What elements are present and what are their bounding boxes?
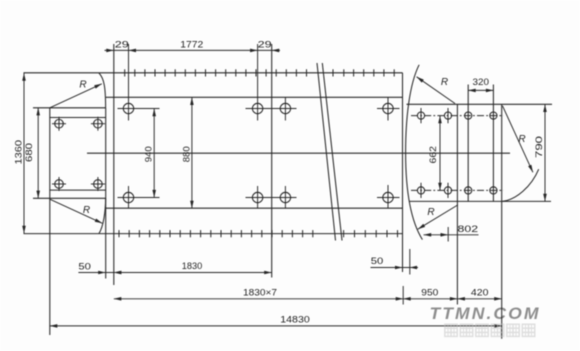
- svg-text:940: 940: [144, 146, 154, 162]
- right section hole E2: [444, 187, 451, 194]
- radius leader R1 left cap top: [50, 80, 102, 108]
- left cap hole C4: [94, 180, 103, 189]
- radius leader R5 far right: [503, 106, 533, 173]
- right section hole D1: [417, 112, 424, 119]
- lower inner line: [106, 207, 403, 209]
- hole centermarks: [52, 44, 448, 208]
- svg-text:50: 50: [371, 256, 384, 266]
- svg-text:29: 29: [258, 40, 272, 50]
- hole B3: [280, 192, 290, 202]
- svg-text:1830×7: 1830×7: [243, 287, 277, 297]
- left cap hole crosses: [52, 123, 66, 125]
- svg-text:1360: 1360: [14, 140, 24, 165]
- vertical centermarks top row: [128, 44, 130, 121]
- right end large radius arc: [406, 65, 423, 240]
- panel joint line: [271, 44, 273, 278]
- svg-text:R: R: [79, 80, 86, 91]
- right section hole D3: [465, 112, 472, 119]
- break line 2: [322, 63, 342, 241]
- svg-text:1772: 1772: [180, 40, 203, 50]
- svg-text:880: 880: [181, 146, 191, 162]
- dim 1360: [14, 73, 26, 233]
- svg-text:R: R: [518, 134, 525, 145]
- left cap hole C3: [55, 180, 64, 189]
- right section joint line c: [492, 85, 494, 202]
- svg-text:14830: 14830: [280, 315, 310, 325]
- svg-text:320: 320: [473, 77, 490, 87]
- watermark: [430, 304, 541, 336]
- dim 790: [534, 104, 547, 201]
- svg-text:662: 662: [428, 146, 438, 164]
- holes: [55, 103, 497, 202]
- radius leader R4 right end bottom: [418, 205, 458, 229]
- left cap hole C1: [55, 119, 64, 128]
- dim 14830: [50, 315, 502, 328]
- hole A4: [383, 103, 393, 113]
- right section hole D2: [444, 112, 451, 119]
- right section joint line b: [467, 85, 469, 202]
- right section hole D4: [490, 112, 497, 119]
- dim 1830x7: [114, 287, 502, 300]
- radius leader R2 left cap bottom: [50, 199, 103, 223]
- radius leader R3 right end top: [417, 77, 455, 104]
- plate left edge: [113, 44, 115, 285]
- right section hole E1: [417, 187, 424, 194]
- left end cap box: [33, 108, 106, 335]
- right section joint line a: [456, 104, 458, 304]
- svg-text:790: 790: [534, 136, 544, 158]
- svg-text:1830: 1830: [182, 261, 203, 271]
- dim 420: [457, 287, 501, 300]
- left cap hole C2: [94, 119, 103, 128]
- upper inner line: [106, 96, 403, 98]
- dim 50 right: [371, 256, 419, 269]
- weld ticks top edge: [125, 69, 395, 76]
- svg-text:802: 802: [458, 224, 479, 234]
- svg-text:420: 420: [471, 287, 489, 297]
- svg-text:R: R: [427, 207, 434, 218]
- right section hole centerline top (dash-dot): [411, 115, 504, 117]
- hole A2: [252, 103, 262, 113]
- centerline holes A1/B1: [118, 108, 160, 110]
- dim 320: [468, 77, 493, 92]
- svg-text:29: 29: [115, 40, 129, 50]
- vertical centermarks bottom row: [128, 186, 130, 208]
- dim 680: [24, 108, 40, 199]
- dim 950: [403, 287, 457, 300]
- dim 1772: [180, 40, 257, 53]
- plate bottom edge: [24, 233, 403, 235]
- dim 29 right: [258, 40, 280, 53]
- dim 1830: [114, 261, 272, 275]
- centerline holes A2/A3: [246, 108, 297, 110]
- dim 880: [181, 97, 193, 208]
- right section hole E3: [465, 187, 472, 194]
- svg-text:TTMN.COM: TTMN.COM: [430, 304, 541, 323]
- right end edge: [501, 104, 503, 338]
- dim 50 left: [78, 262, 271, 275]
- weld ticks bottom edge: [119, 230, 398, 237]
- hole B1 main plate bottom row: [123, 192, 133, 202]
- horizontal centerline: [87, 152, 510, 154]
- dim 802: [424, 224, 479, 242]
- hole B2: [252, 192, 262, 202]
- right section hole centerline bottom (dash-dot): [411, 189, 504, 191]
- ext line 1830x7/950 boundary: [402, 286, 404, 305]
- plate right edge: [402, 73, 404, 272]
- left cap bottom-right fillet arc: [99, 198, 106, 233]
- hole A3: [280, 103, 290, 113]
- svg-text:50: 50: [78, 262, 91, 272]
- left cap top-right fillet arc: [99, 73, 106, 108]
- svg-text:R: R: [441, 77, 448, 88]
- ext line right 50: [409, 249, 411, 275]
- right section top edge: [407, 103, 553, 105]
- right section hole vertical marks: [420, 108, 422, 123]
- dim 662: [428, 116, 442, 191]
- hole B4: [383, 192, 393, 202]
- svg-text:950: 950: [421, 287, 438, 297]
- break line 1: [317, 63, 336, 241]
- svg-text:R: R: [83, 205, 90, 216]
- plate top edge: [24, 72, 403, 74]
- hole A1 main plate top row: [123, 103, 133, 113]
- right section bottom edge: [409, 200, 551, 202]
- right section hole E4: [490, 187, 497, 194]
- svg-text:680: 680: [24, 143, 34, 162]
- dimensions group placeholder: [14, 40, 547, 337]
- right end corner arc: [502, 169, 538, 201]
- dim 940: [144, 109, 156, 198]
- centerline holes A4/B4: [377, 108, 400, 110]
- dim 29 left: [105, 40, 281, 53]
